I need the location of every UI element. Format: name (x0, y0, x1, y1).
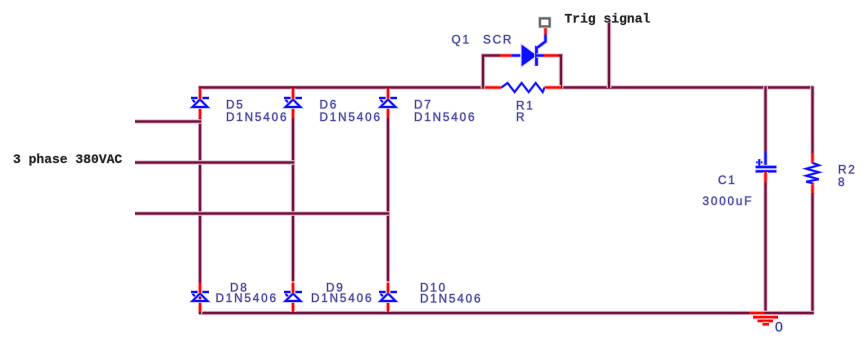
svg-text:D6: D6 (320, 99, 339, 112)
wire rectifier column 1 (198, 117, 203, 314)
svg-text:Q1: Q1 (452, 33, 471, 46)
diode D6 (284, 89, 302, 119)
svg-text:D1N5406: D1N5406 (320, 111, 382, 124)
diode D8 (191, 283, 209, 313)
wire rectifier column 3 (386, 117, 391, 282)
svg-text:3000uF: 3000uF (703, 195, 754, 208)
svg-text:D5: D5 (226, 99, 245, 112)
wire R2 branch lower (810, 193, 815, 315)
wire C1 branch lower (763, 182, 768, 314)
svg-text:D7: D7 (414, 99, 433, 112)
diode D9 (284, 283, 302, 313)
wire trig signal vertical (607, 21, 612, 89)
wire C1 branch upper (763, 87, 768, 154)
diode D10 (379, 283, 397, 313)
thyristor Q1 SCR (500, 27, 559, 67)
wire rectifier column 2 (291, 117, 296, 282)
svg-text:D1N5406: D1N5406 (216, 292, 278, 305)
wire R2 branch upper (810, 86, 815, 154)
ground 0 symbol (749, 313, 778, 324)
svg-text:8: 8 (838, 176, 846, 189)
wire phase line B (135, 160, 294, 165)
wire phase line C (135, 211, 389, 216)
svg-text:SCR: SCR (483, 33, 513, 46)
svg-text:R2: R2 (838, 164, 857, 177)
svg-text:D1N5406: D1N5406 (226, 111, 288, 124)
wire SCR loop right side (558, 56, 561, 89)
diode D7 (379, 89, 397, 119)
svg-text:D1N5406: D1N5406 (414, 111, 476, 124)
wire top bus right section (560, 85, 814, 90)
wire phase line A (135, 119, 201, 124)
svg-text:D1N5406: D1N5406 (311, 292, 373, 305)
wire top bus left section (200, 88, 486, 89)
diode D5 (191, 89, 209, 119)
capacitor C1 (756, 152, 777, 183)
svg-text:0: 0 (775, 319, 785, 335)
wire SCR loop left side (483, 56, 501, 89)
resistor R2 (806, 153, 819, 193)
svg-text:D1N5406: D1N5406 (420, 293, 482, 306)
trig signal terminal square (540, 18, 550, 26)
svg-text:R: R (516, 111, 526, 124)
resistor R1 (485, 83, 561, 92)
wire bottom bus (199, 311, 814, 316)
svg-text:Trig signal: Trig signal (565, 12, 651, 27)
svg-text:C1: C1 (718, 174, 737, 187)
svg-text:3 phase 380VAC: 3 phase 380VAC (13, 152, 122, 167)
